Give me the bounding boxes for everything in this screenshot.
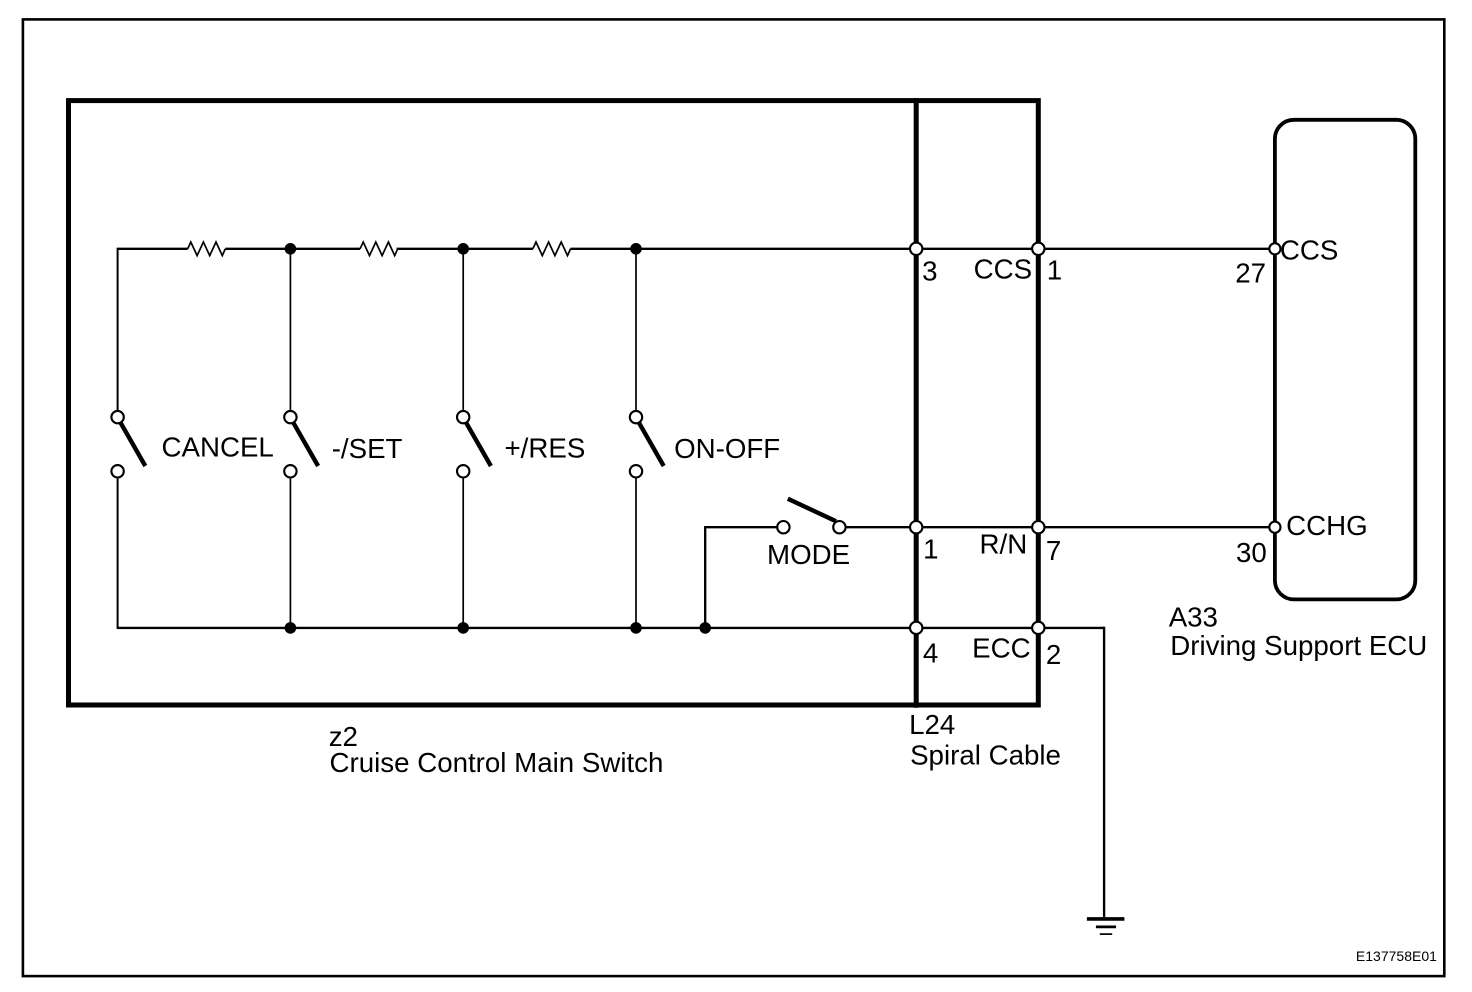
svg-text:3: 3 bbox=[922, 255, 937, 286]
svg-text:30: 30 bbox=[1236, 537, 1267, 568]
svg-text:ON-OFF: ON-OFF bbox=[674, 433, 780, 464]
svg-text:CCS: CCS bbox=[1280, 235, 1338, 266]
svg-text:1: 1 bbox=[923, 534, 938, 565]
svg-text:Spiral Cable: Spiral Cable bbox=[910, 739, 1061, 770]
svg-text:Cruise Control Main Switch: Cruise Control Main Switch bbox=[330, 747, 664, 778]
svg-text:L24: L24 bbox=[909, 709, 955, 740]
svg-text:CCS: CCS bbox=[974, 254, 1032, 285]
svg-text:7: 7 bbox=[1046, 535, 1061, 566]
svg-text:A33: A33 bbox=[1169, 602, 1218, 633]
svg-text:-/SET: -/SET bbox=[332, 433, 403, 464]
svg-text:+/RES: +/RES bbox=[505, 433, 586, 464]
svg-text:1: 1 bbox=[1047, 255, 1062, 286]
svg-text:Driving Support ECU: Driving Support ECU bbox=[1170, 630, 1427, 661]
svg-text:MODE: MODE bbox=[767, 539, 850, 570]
svg-text:CANCEL: CANCEL bbox=[162, 432, 274, 463]
svg-text:2: 2 bbox=[1046, 639, 1061, 670]
svg-text:CCHG: CCHG bbox=[1286, 510, 1368, 541]
svg-text:E137758E01: E137758E01 bbox=[1356, 948, 1437, 964]
svg-text:4: 4 bbox=[923, 638, 938, 669]
svg-text:27: 27 bbox=[1235, 258, 1266, 289]
svg-text:R/N: R/N bbox=[980, 528, 1028, 559]
svg-text:ECC: ECC bbox=[972, 633, 1030, 664]
